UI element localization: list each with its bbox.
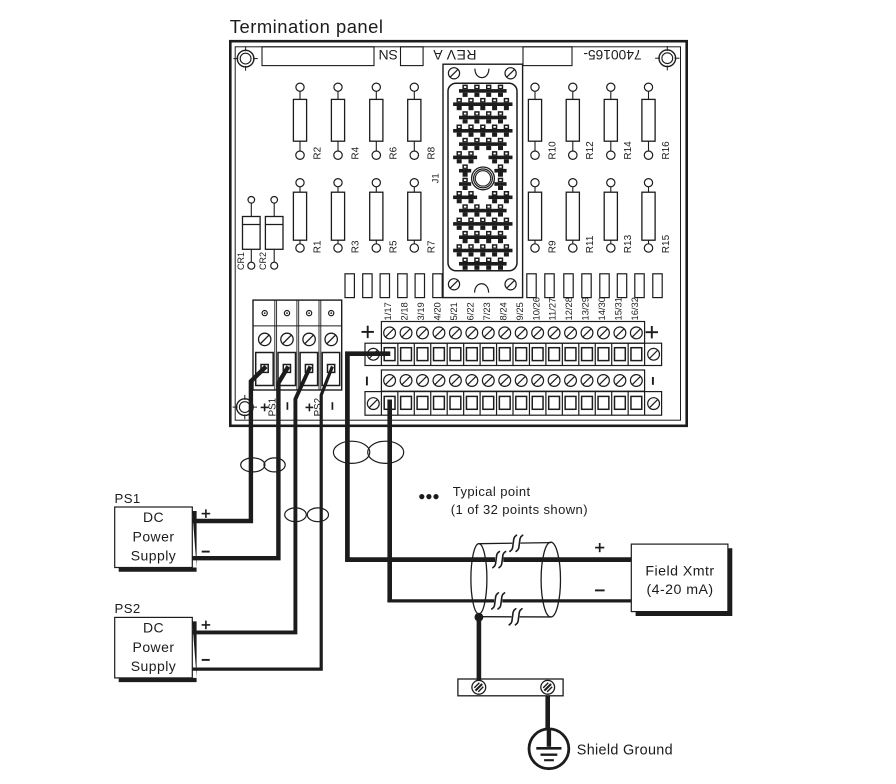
terminal screw row (+): [381, 322, 644, 344]
J1 contact pins: [453, 85, 512, 270]
svg-text:Shield Ground: Shield Ground: [577, 743, 673, 759]
label + (PS2 positive): [306, 404, 314, 412]
shield cable right ellipse: [541, 542, 560, 617]
PS2 + terminal label: [202, 621, 211, 630]
svg-text:Supply: Supply: [131, 548, 177, 564]
part number box: [523, 47, 572, 66]
svg-text:R15: R15: [661, 234, 672, 253]
svg-text:14/30: 14/30: [596, 297, 607, 320]
shield cable left ellipse: [471, 544, 487, 614]
svg-text:DC: DC: [143, 509, 164, 525]
svg-text:R6: R6: [389, 146, 400, 159]
svg-text:R14: R14: [623, 141, 634, 160]
svg-text:7400165-: 7400165-: [583, 47, 641, 62]
svg-text:R12: R12: [585, 141, 596, 160]
svg-text:REV A: REV A: [433, 47, 477, 63]
svg-text:PS2: PS2: [115, 601, 141, 616]
polarity label + (right, plus row): [646, 326, 658, 338]
label - (PS2 negative, rotated): [331, 402, 333, 410]
svg-text:(1 of 32 points shown): (1 of 32 points shown): [451, 502, 588, 517]
wire PS1 + (block 1 to PS1): [192, 367, 266, 522]
line break symbol (shield drain): [512, 613, 520, 621]
svg-text:16/32: 16/32: [629, 297, 640, 320]
polarity label + (left, plus row): [362, 326, 374, 338]
resistor R13: [604, 179, 617, 253]
svg-text:6/22: 6/22: [464, 302, 475, 320]
svg-text:SN: SN: [378, 47, 397, 63]
svg-text:4/20: 4/20: [432, 302, 443, 320]
resistor R10: [528, 83, 541, 159]
power terminal block 4: [322, 311, 340, 386]
twisted pair symbol (PS1 pair): [241, 458, 286, 472]
svg-text:R11: R11: [585, 235, 596, 253]
PS1 + terminal label: [202, 509, 211, 518]
svg-text:R2: R2: [312, 146, 323, 159]
terminal clamp row (-): [365, 392, 662, 416]
wire ground bar to shield ground: [545, 696, 550, 731]
svg-text:R16: R16: [661, 141, 672, 160]
PS2 - terminal label: [202, 659, 210, 661]
svg-text:Power: Power: [133, 529, 175, 545]
svg-text:PS1: PS1: [115, 491, 141, 506]
ellipsis dots: [419, 494, 438, 499]
terminal clamp row (+): [365, 343, 662, 365]
line break symbol (wire +): [495, 556, 503, 564]
svg-text:DC: DC: [143, 620, 164, 636]
termination panel outer border: [230, 41, 686, 426]
resistor R8: [408, 83, 421, 159]
power terminal block 3: [300, 311, 318, 386]
resistor R2: [293, 83, 306, 159]
resistor R5: [370, 179, 383, 253]
J1 top-left screw: [448, 68, 459, 79]
PS2: DC Power Supply box: [115, 617, 193, 678]
power terminal block strip: [253, 300, 342, 390]
resistor R7: [408, 179, 421, 253]
resistor R6: [370, 83, 383, 159]
svg-text:CR1: CR1: [236, 252, 246, 270]
wire - (terminal 1/17 minus row to field xmtr) vertical: [387, 400, 392, 601]
line break symbol (cable top): [512, 540, 520, 548]
resistor R3: [331, 179, 344, 253]
termination panel inner border: [235, 47, 680, 420]
svg-text:R1: R1: [312, 240, 323, 253]
svg-text:8/24: 8/24: [497, 302, 508, 320]
diode CR2: [265, 197, 283, 270]
PS1 - terminal label: [202, 551, 210, 553]
svg-text:R4: R4: [350, 146, 361, 159]
svg-text:Field Xmtr: Field Xmtr: [645, 564, 714, 580]
shield ground symbol: [529, 729, 569, 769]
shield cable top outline: [479, 543, 551, 544]
svg-text:R8: R8: [427, 146, 438, 159]
twisted pair symbol (field pair): [333, 441, 403, 463]
field xmtr + label: [595, 543, 604, 552]
J1 center guide bushing: [472, 167, 495, 190]
resistor R16: [642, 83, 655, 159]
resistor R12: [566, 83, 579, 159]
power terminal block 1: [256, 311, 274, 386]
ground bus bar: [458, 679, 563, 696]
resistor R9: [528, 179, 541, 253]
line break symbol (wire -): [494, 597, 502, 605]
mounting hole top-right: [655, 46, 679, 70]
PS1 box shadow: [119, 511, 197, 572]
wire - (terminal 1/17 minus row to field xmtr) horizontal: [387, 599, 631, 602]
mounting hole top-left: [233, 46, 257, 70]
twisted pair symbol (PS2 pair): [285, 508, 329, 522]
svg-text:Typical point: Typical point: [453, 484, 531, 499]
ground bar screw left: [472, 680, 486, 694]
svg-text:R3: R3: [350, 240, 361, 253]
svg-text:R9: R9: [547, 240, 558, 253]
svg-text:R5: R5: [389, 240, 400, 253]
PS2 box shadow: [119, 621, 197, 682]
label - (PS1 negative, rotated): [286, 402, 288, 410]
label + (PS1 positive): [261, 404, 269, 412]
top label box (blank): [262, 47, 374, 66]
svg-text:9/25: 9/25: [514, 302, 525, 320]
svg-text:7/23: 7/23: [481, 302, 492, 320]
svg-text:5/21: 5/21: [448, 302, 459, 320]
wire + (terminal 1/17 to field xmtr): [347, 354, 631, 560]
SN label box: [401, 47, 424, 66]
svg-text:11/27: 11/27: [547, 298, 558, 321]
terminal screw row (-): [381, 370, 644, 391]
svg-text:15/31: 15/31: [613, 297, 624, 320]
resistor R15: [642, 179, 655, 253]
ground bar screw right: [541, 680, 555, 694]
shield drain line: [481, 616, 551, 618]
svg-text:Power: Power: [133, 639, 175, 655]
svg-text:12/28: 12/28: [563, 297, 574, 320]
field xmtr box shadow: [636, 548, 733, 616]
junction dot (shield to drain): [475, 613, 484, 622]
wire PS2 - (block 4 to PS2): [192, 367, 332, 670]
svg-text:R13: R13: [623, 234, 634, 253]
svg-text:Supply: Supply: [131, 658, 177, 674]
polarity label - (right, minus row, rotated): [652, 377, 654, 385]
svg-text:J1: J1: [430, 173, 441, 183]
polarity label - (left, minus row, rotated): [366, 377, 368, 386]
wire shield drain down: [477, 618, 482, 680]
wire PS1 - (block 2 to PS1): [192, 367, 288, 559]
resistor R14: [604, 83, 617, 159]
jumper pad row (left group): [345, 274, 442, 298]
svg-text:CR2: CR2: [258, 252, 268, 270]
J1 top-right screw: [505, 68, 516, 79]
svg-text:13/29: 13/29: [580, 297, 591, 320]
field xmtr box: [631, 544, 728, 612]
svg-text:Termination panel: Termination panel: [230, 16, 384, 37]
svg-text:R10: R10: [547, 141, 558, 160]
PS1: DC Power Supply box: [115, 507, 193, 568]
svg-text:(4-20 mA): (4-20 mA): [646, 582, 713, 598]
resistor R11: [566, 179, 579, 253]
svg-text:R7: R7: [427, 240, 438, 253]
svg-text:3/19: 3/19: [415, 302, 426, 320]
svg-text:1/17: 1/17: [382, 302, 393, 320]
connector J1 body: [443, 64, 523, 297]
svg-text:2/18: 2/18: [399, 302, 410, 320]
power terminal block 2: [278, 311, 296, 386]
wire PS2 + (block 3 to PS2): [192, 367, 310, 633]
diode CR1: [243, 197, 261, 270]
J1 bottom-right screw: [505, 279, 516, 290]
svg-text:10/26: 10/26: [530, 297, 541, 320]
J1 bottom-left screw: [448, 279, 459, 290]
mounting hole bottom-left: [233, 395, 257, 419]
resistor R1: [293, 179, 306, 253]
jumper pad row (right group): [527, 274, 662, 298]
field xmtr - label: [595, 589, 605, 591]
resistor R4: [331, 83, 344, 159]
